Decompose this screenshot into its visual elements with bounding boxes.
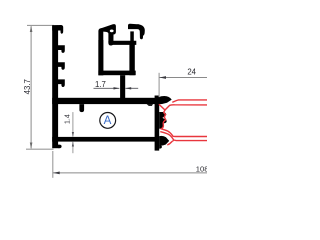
right wall (155, 96, 160, 151)
section label circle A (100, 113, 116, 129)
dimension 1.7 right arrow line (125, 87, 138, 89)
stem wall (120, 75, 125, 98)
gasket middle (159, 112, 166, 129)
red mating profile under-gasket edge (167, 141, 174, 145)
gasket top (156, 96, 171, 104)
dimension 43.7 dimension line (30, 26, 32, 148)
dimension 1.4 lower segment (72, 142, 74, 154)
left wall bottom foot (58, 145, 62, 149)
svg-text:24: 24 (187, 68, 196, 77)
chamber floor (98, 71, 135, 76)
svg-text:1.4: 1.4 (64, 114, 71, 124)
glazing channel right hook top bar (128, 24, 139, 29)
dimension 108 extension line (52, 151, 54, 178)
dimension 43.7 bottom extension line (26, 148, 54, 150)
inner block near right wall (147, 104, 153, 106)
glazing channel right hook outer curl (137, 24, 144, 39)
dimension 24 arrow (159, 76, 166, 79)
svg-text:43.7: 43.7 (23, 79, 32, 94)
svg-text:108: 108 (196, 164, 207, 173)
left wall of profile (52, 25, 58, 148)
left wall hook tooth 3 (58, 79, 65, 87)
dimension 24 dimension line (159, 77, 207, 79)
dimension 108 dimension line (53, 172, 207, 174)
chamber left wall (98, 40, 103, 75)
glazing channel right inner column (130, 31, 134, 41)
dimension 1.4 upper segment (72, 112, 74, 137)
dimension 24 extension line (158, 73, 160, 97)
dimension 43.7 arrow down (30, 143, 33, 149)
glazing channel left bar notch (110, 30, 114, 33)
box bottom bar (52, 137, 159, 142)
left wall top bar with down hook (52, 25, 63, 34)
red mating profile top inner line (159, 104, 207, 110)
dimension 43.7 arrow up (30, 26, 33, 32)
glazing channel left slanted bar with inner column (99, 24, 116, 45)
glazing channel floor (108, 41, 136, 45)
gasket bottom (159, 136, 169, 146)
right wall bottom foot (159, 145, 162, 148)
dimension 1.7 left arrow line (94, 87, 120, 89)
left wall hook tooth 1 (58, 45, 65, 53)
chamber right wall (129, 43, 134, 75)
box top bar (52, 98, 159, 104)
left wall hook tooth 2 (58, 62, 65, 70)
red mating profile left edge (161, 110, 207, 137)
dimension 108 arrow (53, 172, 60, 175)
red mating profile lower sweep line (160, 132, 207, 141)
red mating profile top outer line (172, 100, 207, 102)
dimension 43.7 top extension line (27, 24, 54, 26)
screw port stub (79, 104, 84, 112)
glazing channel left outer wall (98, 28, 103, 75)
svg-text:A: A (104, 114, 112, 127)
svg-text:1.7: 1.7 (95, 80, 106, 89)
